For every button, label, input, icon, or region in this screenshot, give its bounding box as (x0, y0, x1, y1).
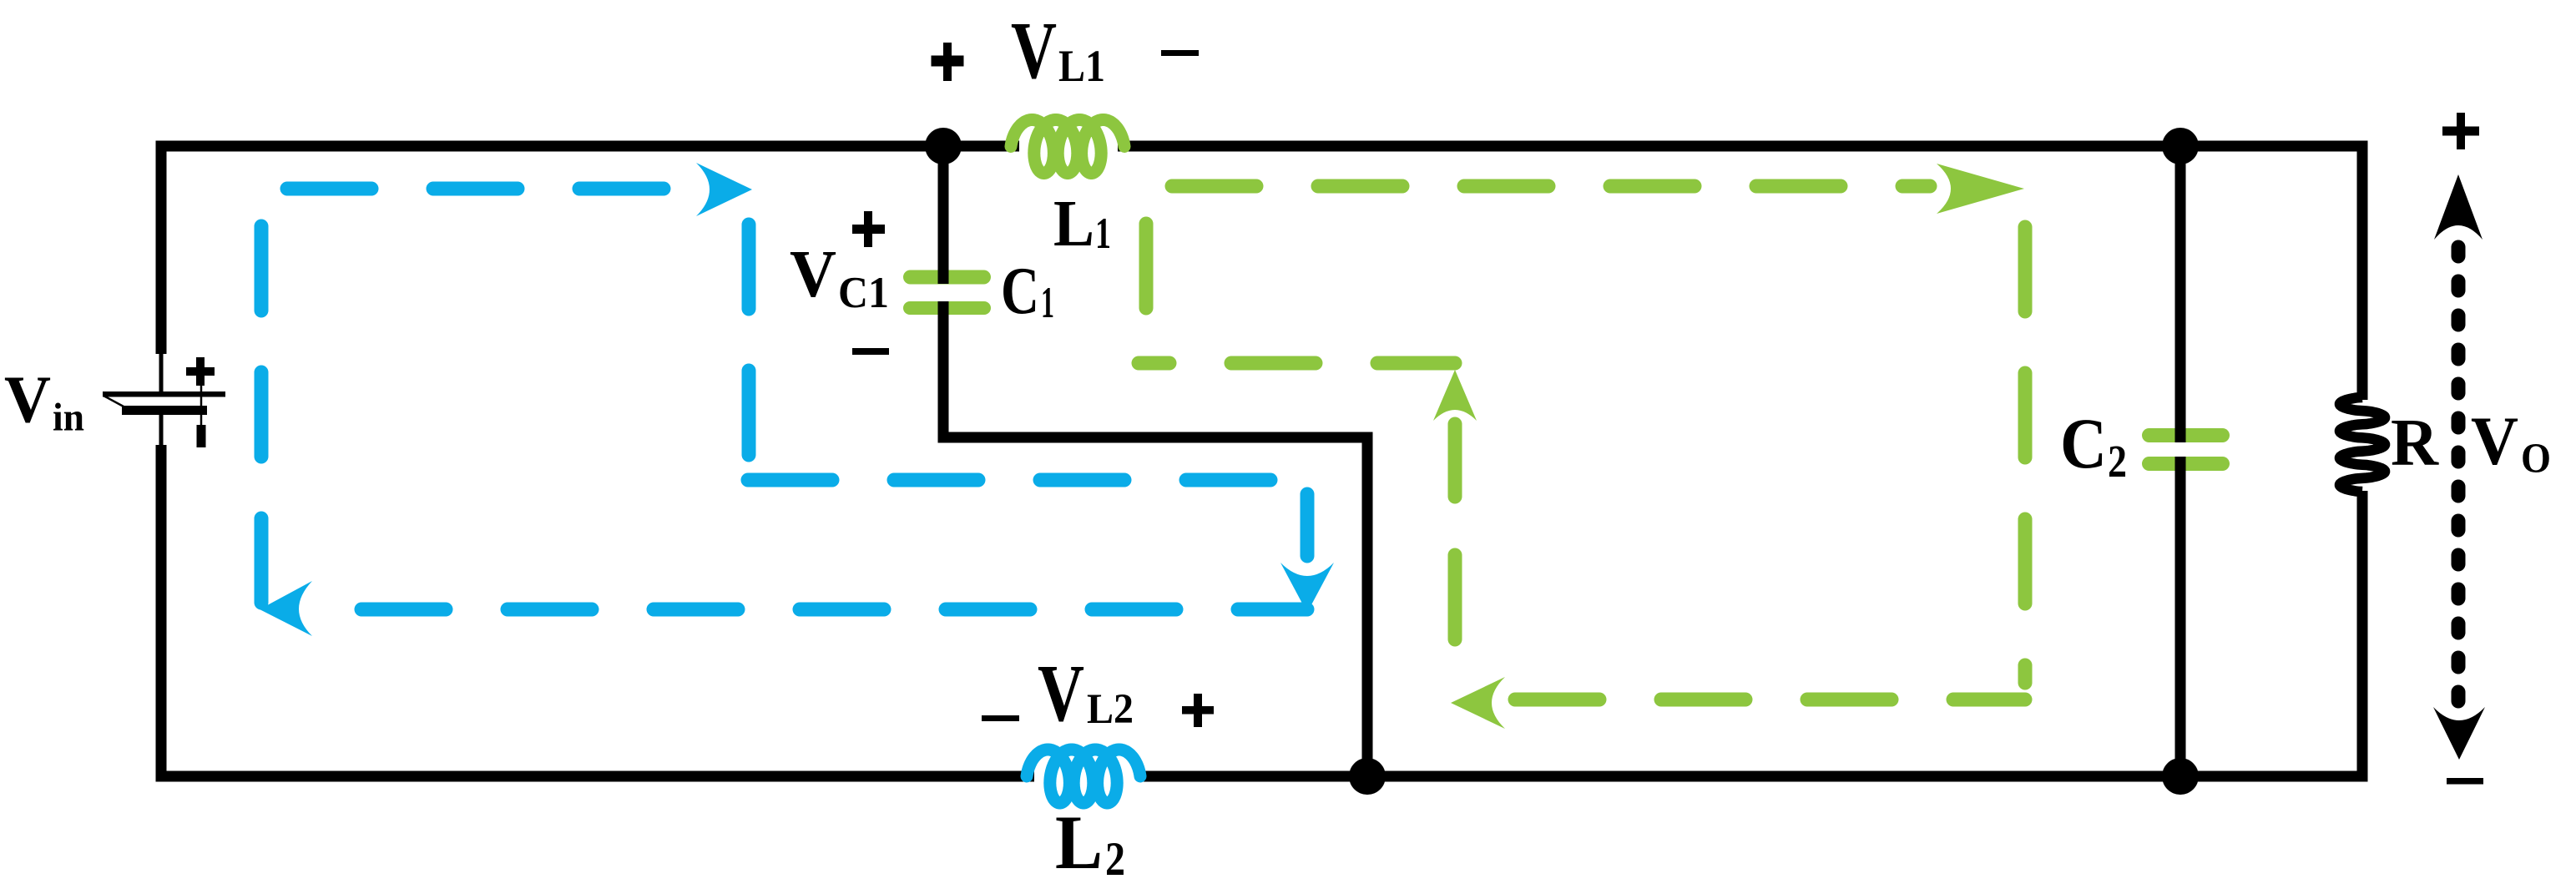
svg-text:V: V (4, 364, 51, 437)
green loop: arrowhead up (1433, 370, 1477, 421)
svg-text:2: 2 (1105, 833, 1125, 886)
svg-text:C: C (2060, 403, 2107, 483)
inductor L2 coil (1027, 750, 1140, 803)
inductor L1 coil (1011, 120, 1124, 174)
wire: C2 branch upper (node B down to C2 top plate) (2175, 146, 2186, 442)
minus sign of VC1 (852, 348, 889, 355)
svg-text:V: V (1038, 649, 1084, 739)
svg-text:L: L (1053, 188, 1094, 260)
Vo arrowhead up (2434, 174, 2483, 240)
svg-text:V: V (790, 236, 836, 311)
blue loop: right vertical dashed run (742, 225, 756, 472)
resistor R squiggle (2340, 397, 2385, 492)
svg-text:L2: L2 (1087, 686, 1134, 733)
svg-text:V: V (2471, 402, 2518, 479)
minus sign of Vo (2447, 778, 2483, 785)
plus sign of VL1 (932, 56, 964, 67)
wire: top rail left segment and left rail upper segment (161, 146, 1019, 354)
Vo dashed measurement line (2452, 247, 2466, 711)
capacitor C2 bottom plate (2142, 457, 2230, 471)
blue loop: bottom dashed run (361, 603, 1307, 617)
green loop: top dashed run (1172, 179, 1930, 194)
svg-text:2: 2 (2108, 436, 2127, 487)
battery Vin (voltage source) (103, 351, 225, 447)
svg-text:L1: L1 (1058, 41, 1105, 91)
wire: C1 branch upper (node A down to C1 top plate) (938, 146, 949, 284)
plus sign of VC1 (852, 225, 885, 234)
svg-text:V: V (1011, 6, 1057, 95)
blue loop: arrowhead down (1280, 563, 1334, 613)
battery lower thin lead (159, 415, 164, 447)
battery long top plate (103, 391, 225, 397)
blue loop: downward arrow shaft (1301, 494, 1315, 556)
plus sign of VL2 (1182, 706, 1214, 715)
capacitor C1 bottom plate (903, 301, 991, 315)
svg-text:R: R (2391, 407, 2439, 480)
capacitor C2 top plate (2142, 428, 2230, 442)
svg-text:in: in (53, 396, 84, 440)
Vo arrowhead down (2433, 707, 2485, 760)
svg-text:O: O (2521, 436, 2551, 482)
green loop: middle vertical dashed run (1448, 498, 1462, 639)
node D (bottom rail / C2 branch junction) (2162, 758, 2199, 795)
wire: right rail lower segment and bottom rail right segment (1144, 491, 2362, 776)
blue loop: arrowhead right (696, 163, 752, 216)
svg-text:C1: C1 (838, 269, 889, 317)
battery short thick bottom plate (122, 406, 207, 415)
green loop: arrowhead right (1937, 164, 2024, 214)
node B (top rail / C2 branch junction) (2162, 128, 2199, 164)
blue loop: left vertical dashed run (255, 210, 269, 603)
wire: C2 branch lower (C2 bottom plate down to node D) (2175, 457, 2186, 776)
capacitor C1 top plate (903, 270, 991, 285)
green loop: arrowhead left (1451, 677, 1505, 729)
svg-text:L: L (1055, 800, 1103, 885)
battery upper thin lead (159, 351, 164, 393)
svg-text:1: 1 (1095, 210, 1111, 258)
svg-text:C: C (1001, 255, 1039, 328)
battery thin vertical tick (200, 382, 203, 427)
wire: bottom rail left segment and left rail lower segment (161, 445, 1034, 776)
green loop: upward arrow shaft (1448, 424, 1462, 497)
minus sign of VL2 (982, 715, 1019, 721)
svg-text:1: 1 (1041, 279, 1054, 327)
wire: C1 branch lower with step over to bottom node C (943, 301, 1367, 776)
wire: top rail right segment and right rail upper segment (1118, 146, 2362, 400)
battery diagonal pen stroke (104, 396, 124, 407)
node A (top rail / C1 branch junction) (925, 128, 962, 164)
green loop: right vertical dashed run (2018, 227, 2033, 683)
blue loop: middle horizontal dashed run (744, 473, 1270, 487)
battery plus sign (186, 367, 215, 376)
battery minus tick bar (197, 425, 206, 447)
node C (bottom rail / step wire junction) (1349, 758, 1386, 795)
minus sign of VL1 (1161, 50, 1199, 56)
blue loop: top dashed run (287, 182, 683, 196)
blue loop: arrowhead left (260, 581, 312, 636)
plus sign of Vo (2442, 127, 2479, 136)
green loop: middle horizontal dashed run (1139, 356, 1455, 371)
green loop: bottom dashed run (1515, 693, 2025, 707)
green loop: left short vertical dashed run (1139, 224, 1154, 363)
